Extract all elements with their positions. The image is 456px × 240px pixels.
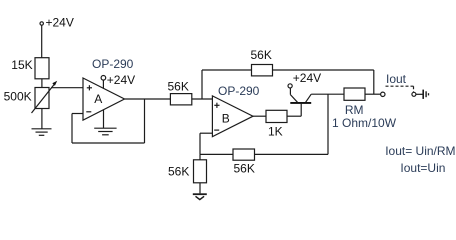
- ground (earth, under op-amp A): [94, 110, 116, 135]
- svg-text:1K: 1K: [268, 125, 283, 139]
- label B: [222, 111, 230, 125]
- svg-text:15K: 15K: [11, 58, 32, 72]
- wire: load terminal to ground: [416, 93, 423, 95]
- label +24V (op-amp A): [107, 73, 135, 87]
- label +24V (transistor): [293, 71, 321, 85]
- label 500K: [4, 89, 32, 103]
- svg-text:1 Ohm/10W: 1 Ohm/10W: [332, 116, 397, 130]
- label +24V (top-left): [46, 16, 74, 30]
- svg-text:+24V: +24V: [293, 71, 321, 85]
- wire: pot wiper to op-amp A +input: [51, 87, 83, 89]
- wire: B output to 1K: [253, 115, 266, 117]
- wire: bottom node to 56K feedback resistor: [200, 153, 233, 155]
- resistor RM: [344, 88, 365, 100]
- svg-text:Iout=Uin: Iout=Uin: [400, 161, 445, 175]
- wire: B -input to bottom node: [200, 133, 212, 154]
- wire: 500K to ground: [41, 109, 43, 129]
- resistor 56K (top positive-feedback): [252, 65, 273, 76]
- ground (rotated, load return): [423, 90, 428, 99]
- wire: A output to 56K: [125, 98, 171, 100]
- label 56K (top): [251, 48, 272, 62]
- svg-text:OP-290: OP-290: [218, 84, 260, 98]
- wire: emitter rail to RM: [311, 93, 344, 95]
- label 56K (series input): [168, 80, 189, 94]
- wire: 1K to transistor base: [287, 115, 301, 117]
- resistor 56K (bottom feedback): [233, 149, 255, 160]
- op-amp U2 B (OP-290): [212, 96, 253, 137]
- resistor 56K (A output to B +input): [170, 94, 191, 105]
- label 1K: [268, 125, 283, 139]
- svg-text:56K: 56K: [251, 48, 272, 62]
- resistor 15K: [35, 58, 49, 79]
- wire: bottom 56K to emitter rail: [255, 94, 329, 154]
- label OP-290 (A): [92, 57, 134, 71]
- terminal circle (load side): [412, 92, 416, 96]
- svg-text:Iout= Uin/RM: Iout= Uin/RM: [385, 144, 455, 158]
- svg-text:+24V: +24V: [46, 16, 74, 30]
- label OP-290 (B): [218, 84, 260, 98]
- wire: top 56K to RM output node: [273, 70, 374, 94]
- wire: dashed load connection: [386, 86, 414, 92]
- label 15K: [11, 58, 32, 72]
- svg-text:56K: 56K: [234, 161, 255, 175]
- wire: 56K to B +input: [192, 98, 213, 100]
- label RM: [345, 103, 364, 117]
- ground (earth, under 500K): [32, 129, 52, 136]
- power pin circle (transistor +24V): [288, 84, 292, 88]
- svg-text:56K: 56K: [168, 165, 189, 179]
- formula Iout=Uin: [400, 161, 445, 175]
- svg-text:+24V: +24V: [107, 73, 135, 87]
- terminal circle Iout (left): [381, 92, 385, 96]
- svg-text:OP-290: OP-290: [92, 57, 134, 71]
- svg-text:56K: 56K: [168, 80, 189, 94]
- wire: +24V terminal to R 15K: [41, 25, 43, 58]
- wire: node at B +input up to top feedback 56K: [202, 70, 252, 99]
- resistor 1K: [266, 110, 287, 122]
- potentiometer 500K: [32, 81, 58, 113]
- label A: [94, 92, 102, 106]
- label 56K (vertical): [168, 165, 189, 179]
- svg-text:500K: 500K: [4, 89, 32, 103]
- ground (arrow, under vertical 56K): [193, 194, 207, 199]
- power terminal +24V (top-left): [40, 22, 43, 25]
- op-amp U1 A (OP-290): [83, 78, 125, 120]
- wire: 15K to 500K: [41, 79, 43, 88]
- transistor Q1: [290, 88, 311, 116]
- svg-text:A: A: [94, 92, 102, 106]
- wire: A feedback loop (output to -input): [72, 99, 145, 143]
- wire: RM to Iout terminal: [365, 93, 381, 95]
- resistor 56K (B -input to ground, vertical): [194, 154, 207, 193]
- svg-text:Iout: Iout: [386, 72, 407, 86]
- formula Iout= Uin/RM: [385, 144, 455, 158]
- label 1 Ohm/10W: [332, 116, 397, 130]
- svg-text:B: B: [222, 111, 230, 125]
- label 56K (bottom feedback): [234, 161, 255, 175]
- label Iout: [386, 72, 407, 86]
- power pin circle of A: [101, 76, 106, 89]
